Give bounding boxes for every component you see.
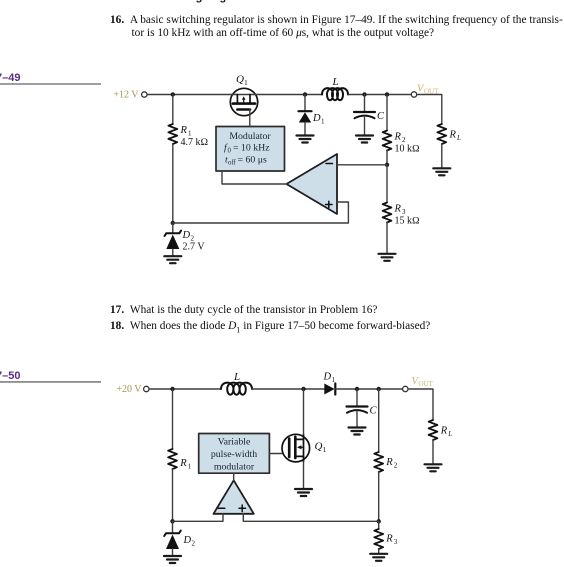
svg-text:modulator: modulator: [214, 462, 255, 473]
svg-text:3: 3: [394, 538, 398, 546]
resistor R3: [374, 521, 398, 553]
ground (C): [356, 136, 373, 143]
wire: Q1 source to ground: [303, 462, 305, 489]
svg-text:= 10 kHz: = 10 kHz: [233, 143, 270, 154]
zener diode D2: [165, 223, 206, 256]
problem 17 text: [110, 304, 377, 317]
figure 17-50 rule: [0, 381, 101, 383]
running head (cut off at top): [38, 0, 111, 3]
svg-text:C: C: [377, 111, 385, 122]
wire: modulator to Q1 gate: [269, 453, 289, 455]
resistor RL: [429, 420, 453, 464]
svg-text:+12 V: +12 V: [113, 90, 139, 101]
svg-text:15 kΩ: 15 kΩ: [395, 216, 421, 227]
resistor R2: [374, 389, 398, 521]
node: divider tap junction: [385, 163, 389, 167]
ground (D2): [164, 256, 181, 263]
wire: VOUT to RL: [408, 389, 433, 420]
wire: inverting input to divider tap: [337, 164, 387, 166]
node: R1 junction: [170, 387, 174, 391]
svg-text:D: D: [183, 535, 192, 546]
wire: noninverting input to D2: [173, 202, 349, 223]
diode D1: [323, 372, 336, 395]
FIGURE 17-50 label (clipped at left): [0, 370, 20, 382]
node: R1 junction: [171, 92, 175, 96]
op-amp U2: [214, 480, 254, 514]
svg-text:R: R: [385, 534, 393, 545]
VOUT terminal: [403, 376, 434, 392]
svg-text:0: 0: [228, 148, 232, 155]
svg-text:pulse-width: pulse-width: [211, 449, 257, 460]
svg-text:L: L: [332, 76, 339, 88]
wire: op-amp output to modulator: [233, 473, 235, 480]
ground (Q1): [295, 489, 312, 496]
svg-text:D: D: [312, 113, 321, 124]
diode D1: [299, 95, 326, 135]
svg-text:R: R: [179, 458, 187, 469]
+12 V source terminal: [113, 90, 147, 101]
svg-text:L: L: [447, 430, 452, 438]
capacitor C: [347, 389, 378, 427]
wire: tap to R3: [386, 165, 388, 203]
svg-text:D: D: [323, 372, 332, 383]
svg-text:1: 1: [188, 463, 192, 471]
svg-text:+20 V: +20 V: [116, 384, 142, 395]
inductor L: [322, 76, 348, 100]
wire: op-amp output to modulator: [222, 171, 287, 184]
wire: Q1 gate to modulator: [249, 110, 251, 127]
inductor L: [221, 371, 252, 395]
node: R2 junction: [385, 92, 389, 96]
node: switch node junction: [301, 387, 305, 391]
wire: D1 to VOUT: [335, 388, 402, 390]
node: C junction: [362, 92, 366, 96]
svg-text:L: L: [233, 371, 240, 383]
svg-text:D: D: [182, 230, 191, 241]
+20 V source terminal: [116, 384, 149, 395]
svg-text:1: 1: [323, 445, 327, 454]
VOUT terminal: [411, 84, 439, 98]
zener diode D2: [164, 521, 195, 555]
svg-text:1: 1: [244, 78, 248, 87]
ground (C): [349, 428, 366, 435]
resistor R1: [168, 95, 208, 224]
resistor R1: [168, 389, 192, 521]
FIGURE 17-49 label (clipped at left): [0, 72, 20, 84]
wire: L to diode D1: [252, 388, 324, 390]
svg-text:2: 2: [192, 540, 196, 548]
svg-text:10 kΩ: 10 kΩ: [395, 144, 421, 155]
node: D1 junction: [303, 92, 307, 96]
svg-text:1: 1: [321, 118, 325, 126]
ground (R3): [370, 554, 387, 561]
ground (D2): [164, 556, 181, 563]
svg-text:R: R: [394, 204, 402, 215]
transistor Q1: [230, 74, 257, 116]
svg-text:R: R: [180, 125, 188, 136]
svg-text:4.7 kΩ: 4.7 kΩ: [181, 137, 209, 148]
node: D2 junction: [170, 519, 174, 523]
problem 16 text: [110, 14, 563, 40]
ground (RL): [425, 464, 442, 471]
ground (RL): [433, 168, 450, 175]
wire: VOUT to RL: [417, 95, 442, 125]
op-amp U1: [287, 154, 338, 214]
wire: +12V terminal to Q1: [147, 94, 231, 96]
wire: switch node to Q1 drain: [303, 389, 305, 435]
svg-text:R: R: [385, 457, 393, 468]
svg-text:2: 2: [394, 462, 398, 470]
node: D2 junction: [171, 221, 175, 225]
wire: Q1 to inductor L: [258, 94, 322, 96]
ground (D1): [297, 136, 314, 143]
figure 17-49 rule: [0, 83, 101, 85]
svg-text:R: R: [440, 426, 448, 437]
svg-text:C: C: [370, 406, 378, 417]
resistor R2: [383, 95, 420, 165]
wire: L to RL corner: [348, 94, 411, 96]
svg-text:1: 1: [332, 376, 336, 384]
wire: noninverting input to R2/R3 junction: [243, 514, 378, 522]
svg-text:Variable: Variable: [218, 437, 251, 448]
svg-text:= 60 μs: = 60 μs: [238, 155, 267, 166]
resistor R3: [383, 203, 420, 254]
svg-text:L: L: [456, 134, 461, 142]
modulator box: [199, 434, 270, 474]
svg-text:R: R: [394, 132, 402, 143]
resistor RL: [437, 124, 461, 168]
svg-text:Q: Q: [315, 441, 323, 453]
node: R2/R3 junction: [377, 519, 381, 523]
svg-text:R: R: [449, 130, 457, 141]
svg-text:2.7 V: 2.7 V: [183, 242, 206, 253]
capacitor C: [354, 95, 385, 135]
node: R2 junction: [377, 387, 381, 391]
wire: inverting input to D2: [173, 514, 224, 522]
ground (R3): [379, 254, 396, 261]
node: C junction: [355, 387, 359, 391]
svg-text:Modulator: Modulator: [229, 131, 271, 142]
modulator box: [216, 127, 285, 172]
svg-text:OUT: OUT: [419, 380, 434, 388]
svg-text:off: off: [228, 160, 237, 167]
transistor Q1: [282, 434, 327, 462]
problem 18 text: [110, 320, 430, 336]
wire: +20V terminal to inductor: [149, 388, 221, 390]
svg-text:Q: Q: [236, 74, 244, 86]
